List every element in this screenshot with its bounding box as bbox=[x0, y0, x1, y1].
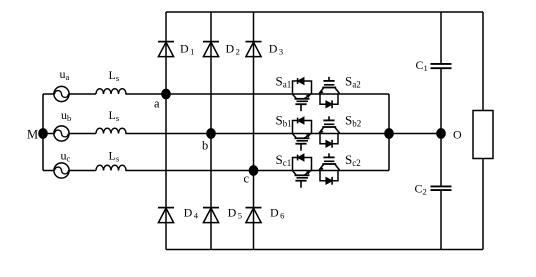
wire: source neutral vertical (M bus) bbox=[42, 94, 44, 171]
wire: load rail bbox=[482, 12, 484, 111]
capacitor C2 bbox=[415, 182, 452, 197]
diode D2 bbox=[203, 42, 240, 57]
svg-text:c: c bbox=[244, 172, 250, 186]
diode D4 bbox=[158, 206, 199, 223]
diode D3 bbox=[246, 42, 284, 57]
node M bbox=[27, 127, 47, 141]
svg-text:b: b bbox=[202, 138, 208, 152]
wire: phase-b vertical leg bbox=[210, 12, 212, 250]
switch Sc1 (IGBT with antiparallel diode) bbox=[276, 152, 312, 188]
AC source ua bbox=[54, 67, 70, 102]
svg-text:M: M bbox=[27, 127, 38, 141]
wire: top DC rail bbox=[166, 11, 483, 13]
diode D6 bbox=[246, 206, 285, 223]
AC source uc bbox=[54, 149, 71, 179]
AC source ub bbox=[54, 108, 71, 141]
wire: phase-a vertical leg bbox=[165, 12, 167, 250]
diode D1 bbox=[158, 42, 194, 57]
node O bbox=[437, 128, 462, 142]
svg-text:O: O bbox=[453, 128, 462, 142]
switch Sb2 (IGBT with antiparallel diode) bbox=[319, 113, 362, 148]
wire: phase-b row bbox=[43, 133, 54, 135]
inductor Ls (phase b) bbox=[96, 108, 126, 134]
wire: phase-c vertical leg bbox=[253, 12, 255, 250]
junction: switch outputs to O bbox=[385, 129, 393, 138]
wire: bottom DC rail bbox=[166, 249, 483, 251]
switch Sa2 (IGBT with antiparallel diode) bbox=[319, 74, 361, 109]
load resistor bbox=[473, 111, 493, 159]
diode D5 bbox=[203, 206, 242, 223]
svg-text:a: a bbox=[154, 97, 160, 111]
wire: phase-c row bbox=[43, 170, 54, 172]
inductor Ls (phase a) bbox=[96, 68, 126, 94]
switch Sb1 (IGBT with antiparallel diode) bbox=[276, 113, 312, 151]
wire: switch output vertical bbox=[388, 94, 390, 171]
wire: phase-a row bbox=[43, 93, 54, 95]
switch Sa1 (IGBT with antiparallel diode) bbox=[276, 74, 312, 112]
wire: capacitor midpoint rail bbox=[440, 12, 442, 64]
node a bbox=[154, 89, 170, 110]
switch Sc2 (IGBT with antiparallel diode) bbox=[319, 152, 361, 185]
node c bbox=[244, 166, 258, 186]
inductor Ls (phase c) bbox=[96, 149, 126, 171]
node b bbox=[202, 129, 215, 152]
capacitor C1 bbox=[416, 58, 452, 73]
